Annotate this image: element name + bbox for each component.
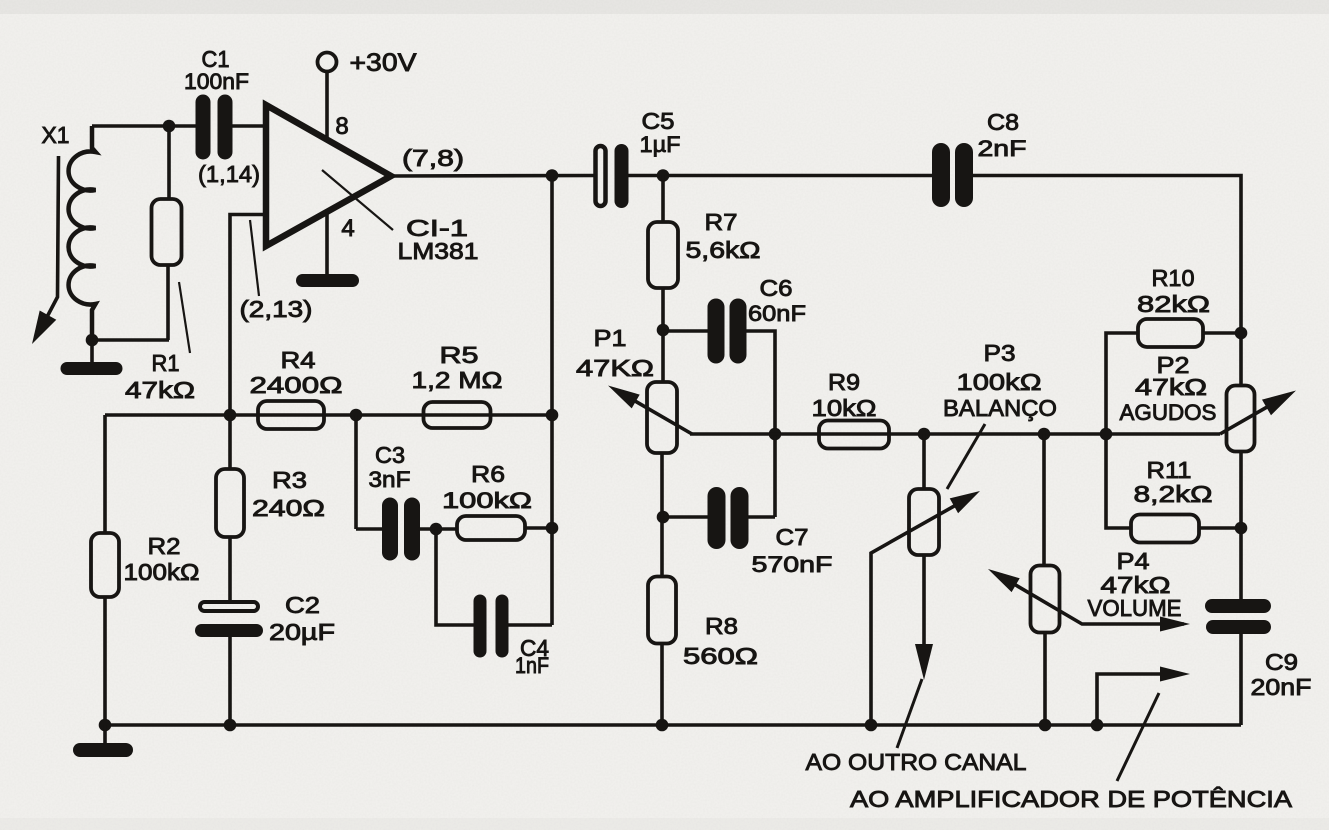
svg-text:8: 8: [335, 113, 348, 140]
svg-text:47kΩ: 47kΩ: [125, 377, 195, 403]
label C1 value: [184, 69, 249, 94]
wire R6 right: [525, 526, 552, 530]
wire wiper bus: [690, 432, 1220, 436]
label C4 value: [515, 653, 549, 678]
wiper arrow P3: [871, 491, 980, 725]
wire C7 left: [663, 515, 709, 519]
svg-text:P3: P3: [984, 340, 1016, 366]
potentiometer P3: [909, 434, 939, 652]
junction node X1 bottom: [86, 334, 99, 347]
label C2 value: [269, 619, 335, 645]
junction node bus/P4: [1038, 428, 1051, 441]
wire C3 left: [356, 527, 384, 531]
svg-text:8,2kΩ: 8,2kΩ: [1134, 481, 1213, 507]
junction node R11/right rail: [1235, 522, 1248, 535]
svg-text:R6: R6: [471, 461, 505, 487]
svg-text:(7,8): (7,8): [402, 145, 464, 171]
svg-text:60nF: 60nF: [748, 301, 806, 326]
svg-text:(1,14): (1,14): [198, 161, 260, 187]
junction node R7/C6: [657, 324, 670, 337]
label LM381: [398, 238, 479, 264]
label R6 value: [442, 488, 532, 513]
transducer X1 (pickup coil with arrow): [32, 126, 96, 344]
capacitor C3: [382, 498, 420, 561]
svg-text:100kΩ: 100kΩ: [442, 488, 532, 513]
label pin 8: [335, 113, 348, 140]
svg-text:AO AMPLIFICADOR DE POTÊNCIA: AO AMPLIFICADOR DE POTÊNCIA: [850, 786, 1293, 812]
junction node mid/552: [546, 409, 559, 422]
label AO AMPLIFICADOR DE POTÊNCIA: [850, 786, 1293, 812]
wire vertical x552 lower: [550, 415, 554, 625]
wire C8 to right edge: [971, 176, 1241, 387]
label R5: [440, 342, 479, 368]
label pin 4: [341, 215, 354, 242]
potentiometer P4: [1031, 434, 1060, 725]
svg-text:R7: R7: [705, 209, 738, 235]
label R10: [1152, 265, 1195, 291]
+30V supply terminal: [318, 53, 337, 72]
label C2: [285, 592, 320, 618]
label R8 value: [683, 643, 758, 669]
label +30V: [350, 49, 417, 77]
wire feedback pins (2,13): [230, 215, 266, 416]
svg-text:1nF: 1nF: [515, 653, 549, 678]
arrow P3 to other channel: [915, 644, 933, 680]
wire R11 right: [1199, 526, 1241, 530]
resistor R7: [648, 175, 678, 382]
label R11: [1147, 457, 1192, 483]
wire pin 4 to ground: [325, 212, 329, 274]
wire C4 right: [507, 623, 552, 627]
wire R10 right: [1203, 331, 1241, 335]
label C9: [1265, 649, 1298, 675]
label CI-1: [406, 215, 468, 241]
svg-text:4: 4: [341, 215, 354, 242]
svg-text:C9: C9: [1265, 649, 1298, 675]
leader line BALANÇO: [947, 424, 985, 489]
label C3: [375, 442, 405, 468]
svg-text:2nF: 2nF: [978, 136, 1027, 161]
svg-text:R9: R9: [828, 369, 860, 395]
junction node mid/230: [224, 409, 237, 422]
capacitor C5 (electrolytic): [596, 144, 629, 208]
label X1: [42, 122, 70, 148]
junction node C3/R6/C4: [430, 523, 443, 536]
label C9 value: [1251, 674, 1312, 700]
label C7 value: [752, 552, 833, 577]
capacitor C1: [196, 95, 233, 160]
label P3: [984, 340, 1016, 366]
label P4 value: [1101, 572, 1171, 598]
wiper arrow P1: [608, 386, 692, 435]
label BALANÇO: [943, 395, 1057, 421]
leader line AO AMPLIFICADOR: [1117, 693, 1159, 781]
label C4: [520, 635, 549, 661]
label AO OUTRO CANAL: [806, 749, 1027, 775]
label P1: [594, 325, 627, 351]
wire ground bus: [100, 723, 1241, 727]
junction node bracket/bus: [1100, 428, 1113, 441]
label C5: [642, 108, 675, 134]
wire C6 right: [746, 331, 775, 434]
label P2: [1157, 352, 1190, 378]
resistor R11: [1131, 515, 1199, 543]
label C6: [760, 275, 793, 301]
resistor R10: [1138, 319, 1203, 347]
label C3 value: [369, 467, 411, 492]
label VOLUME: [1088, 595, 1182, 621]
wire R1 bottom to X1: [92, 338, 169, 342]
junction node bus/output: [1091, 719, 1104, 732]
label (2,13): [240, 296, 313, 322]
resistor R3: [216, 415, 244, 601]
svg-text:C3: C3: [375, 442, 405, 468]
svg-text:VOLUME: VOLUME: [1088, 595, 1182, 621]
leader line CI-1: [322, 170, 393, 230]
label R11 value: [1134, 481, 1213, 507]
wire pin 8 to +30V: [325, 71, 329, 137]
wire X1 bottom: [90, 340, 94, 362]
svg-text:5,6kΩ: 5,6kΩ: [686, 237, 761, 263]
wire bus ground stub: [103, 725, 107, 743]
resistor R2: [91, 415, 119, 725]
capacitor C7: [708, 487, 749, 549]
resistor R4: [258, 401, 324, 429]
wiper arrow P4: [988, 569, 1190, 632]
wire C5 to C8: [628, 174, 933, 178]
resistor R6: [457, 516, 525, 540]
ground under op-amp: [296, 274, 359, 287]
svg-text:(2,13): (2,13): [240, 296, 313, 322]
wire C3 to R6: [418, 527, 458, 531]
svg-text:2400Ω: 2400Ω: [250, 372, 343, 398]
svg-text:X1: X1: [42, 122, 70, 148]
svg-text:R10: R10: [1152, 265, 1195, 291]
svg-text:3nF: 3nF: [369, 467, 411, 492]
svg-text:C7: C7: [776, 524, 809, 550]
svg-text:P1: P1: [594, 325, 627, 351]
svg-text:1,2 MΩ: 1,2 MΩ: [412, 367, 503, 393]
capacitor C2 (electrolytic): [195, 602, 263, 725]
leader line R1: [179, 282, 190, 353]
resistor R5: [424, 402, 491, 428]
svg-text:P4: P4: [1117, 548, 1150, 574]
resistor R9: [819, 421, 889, 449]
svg-text:240Ω: 240Ω: [252, 495, 325, 521]
svg-text:20nF: 20nF: [1251, 674, 1312, 700]
wire R10-R11 bracket: [1106, 333, 1138, 528]
junction node R10/right rail: [1235, 327, 1248, 340]
label R8: [705, 613, 738, 639]
wiper arrow P2: [1220, 391, 1296, 435]
junction node bus/R8: [656, 719, 669, 732]
label R5 value: [412, 367, 503, 393]
junction node x775/bus: [769, 428, 782, 441]
svg-text:BALANÇO: BALANÇO: [943, 395, 1057, 421]
junction node output/x552: [546, 169, 559, 182]
label C8: [987, 109, 1019, 135]
potentiometer P1: [647, 382, 677, 453]
junction node C5/R7: [657, 169, 670, 182]
wire vertical x552: [550, 176, 554, 416]
label pins (1,14): [198, 161, 260, 187]
ground bottom-left: [73, 743, 133, 757]
leader line (2,13): [250, 220, 259, 296]
svg-text:82kΩ: 82kΩ: [1137, 291, 1210, 317]
label C8 value: [978, 136, 1027, 161]
wire mid line R2-R4-R5: [105, 413, 552, 417]
wire C1 to op-amp: [232, 124, 266, 128]
svg-text:AO OUTRO CANAL: AO OUTRO CANAL: [806, 749, 1027, 775]
svg-text:47kΩ: 47kΩ: [1135, 374, 1207, 400]
wire P2 to R11: [1239, 451, 1243, 600]
label P4: [1117, 548, 1150, 574]
capacitor C6: [708, 299, 747, 364]
junction node mid/356: [350, 409, 363, 422]
label C6 value: [748, 301, 806, 326]
label R9: [828, 369, 860, 395]
junction node bus/P3 wiper: [865, 719, 878, 732]
svg-text:100kΩ: 100kΩ: [124, 559, 200, 585]
label R4: [281, 347, 316, 373]
svg-text:10kΩ: 10kΩ: [812, 395, 877, 421]
capacitor C9: [1205, 599, 1271, 634]
label R1: [152, 350, 180, 376]
label R3 value: [252, 495, 325, 521]
junction node bus/C2: [224, 719, 237, 732]
svg-text:1µF: 1µF: [640, 132, 681, 157]
svg-text:R1: R1: [152, 350, 180, 376]
junction node C1/R1: [163, 120, 176, 133]
label R7 value: [686, 237, 761, 263]
svg-text:R3: R3: [272, 467, 307, 493]
label R7: [705, 209, 738, 235]
svg-text:570nF: 570nF: [752, 552, 833, 577]
wire op-amp output: [391, 174, 596, 178]
svg-text:C2: C2: [285, 592, 320, 618]
svg-text:R4: R4: [281, 347, 316, 373]
wire C4 loop left: [436, 529, 476, 625]
label R4 value: [250, 372, 343, 398]
svg-text:560Ω: 560Ω: [683, 643, 758, 669]
label P3 value: [957, 369, 1042, 395]
label R3: [272, 467, 307, 493]
junction node C7/R8: [657, 511, 670, 524]
svg-text:20µF: 20µF: [269, 619, 335, 645]
svg-text:R5: R5: [440, 342, 479, 368]
ground under X1: [61, 362, 123, 375]
label R2 value: [124, 559, 200, 585]
wire output to amplifier: [1097, 667, 1190, 726]
svg-text:47KΩ: 47KΩ: [576, 355, 654, 381]
wire C6 left: [663, 329, 708, 333]
leader line AO OUTRO CANAL: [897, 679, 922, 748]
label R9 value: [812, 395, 877, 421]
op-amp U1 (CI-1 LM381) triangle: [266, 105, 391, 246]
svg-text:R2: R2: [148, 533, 181, 559]
label R2: [148, 533, 181, 559]
potentiometer P2: [1227, 386, 1255, 452]
svg-text:R11: R11: [1147, 457, 1192, 483]
svg-text:C8: C8: [987, 109, 1019, 135]
label P1 value: [576, 355, 654, 381]
label AGUDOS: [1120, 400, 1217, 425]
svg-text:+30V: +30V: [350, 49, 417, 77]
label pins (7,8): [402, 145, 464, 171]
capacitor C8: [932, 143, 973, 207]
label R6: [471, 461, 505, 487]
svg-text:C6: C6: [760, 275, 793, 301]
svg-text:100nF: 100nF: [184, 69, 249, 94]
svg-text:R8: R8: [705, 613, 738, 639]
label R10 value: [1137, 291, 1210, 317]
wire C7 right: [747, 515, 775, 519]
label R1 value: [125, 377, 195, 403]
resistor R1: [152, 126, 182, 340]
resistor R8: [648, 453, 676, 725]
junction node bus/P3: [918, 428, 931, 441]
wire C7 vertical: [773, 434, 777, 517]
wire C9 to bus: [1239, 633, 1243, 725]
label P2 value: [1135, 374, 1207, 400]
svg-text:C5: C5: [642, 108, 675, 134]
wire X1 top to C1: [92, 124, 196, 128]
capacitor C4: [474, 595, 509, 658]
svg-text:AGUDOS: AGUDOS: [1120, 400, 1217, 425]
label C7: [776, 524, 809, 550]
junction node bus/P4 bottom: [1039, 719, 1052, 732]
label C5 value: [640, 132, 681, 157]
junction node bus/R2: [99, 719, 112, 732]
junction node R6/x552: [546, 522, 559, 535]
wire C3 branch down: [354, 415, 358, 529]
label C1: [202, 46, 230, 72]
svg-text:LM381: LM381: [398, 238, 479, 264]
svg-text:100kΩ: 100kΩ: [957, 369, 1042, 395]
